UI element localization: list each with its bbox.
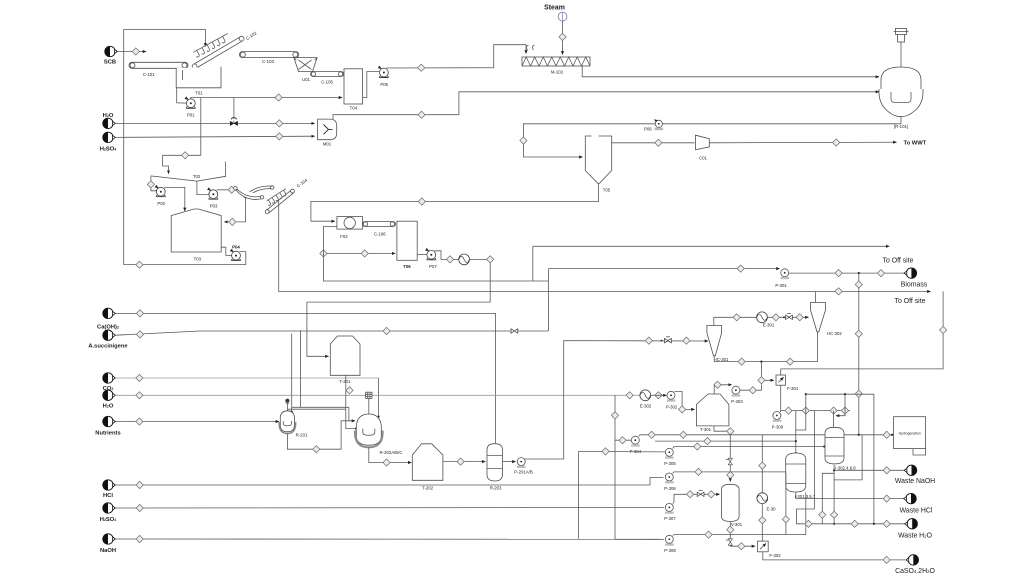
node diamond R201out xyxy=(313,446,320,453)
node diamond P01T04 xyxy=(275,94,282,101)
conveyor C-101 xyxy=(129,62,188,77)
node diamond P07b xyxy=(487,256,494,263)
svg-text:F02: F02 xyxy=(340,234,348,239)
node diamond e30b xyxy=(759,517,766,524)
node diamond H2SO4 xyxy=(276,133,283,140)
svg-text:H2SO4: H2SO4 xyxy=(100,147,117,153)
wire H2O to E-302 xyxy=(115,394,639,396)
svg-text:P03: P03 xyxy=(210,204,218,209)
wire F-301 bottoms to P-309 xyxy=(780,385,782,411)
pump P04 xyxy=(231,245,241,261)
conveyor C-106 xyxy=(363,222,396,237)
wire T02 to P03 xyxy=(197,181,209,195)
svg-text:T02: T02 xyxy=(193,174,201,179)
node diamond trunk2 xyxy=(855,390,862,397)
svg-text:M01: M01 xyxy=(323,141,332,146)
svg-text:To Off site: To Off site xyxy=(895,298,926,305)
svg-text:P07: P07 xyxy=(429,264,437,269)
svg-text:HCl: HCl xyxy=(103,493,113,499)
wire T04 right to P05 riser xyxy=(363,72,380,98)
svg-text:Hydrogenation: Hydrogenation xyxy=(899,431,921,435)
wire C-104 to T03 xyxy=(224,198,245,222)
wire P01 branch down to T02 xyxy=(163,98,201,174)
conveyor C-104 upper belt xyxy=(244,186,274,198)
svg-text:P04: P04 xyxy=(232,245,240,250)
node diamond M01out xyxy=(418,111,425,118)
wire F02 bottoms xyxy=(323,227,548,282)
svg-text:T06: T06 xyxy=(403,264,411,269)
tank T-202 xyxy=(412,444,443,491)
wire v845 short xyxy=(836,394,845,416)
node diamond cl1 xyxy=(785,407,792,414)
conveyor C-104 lower belt xyxy=(234,187,264,200)
node diamond f301in xyxy=(758,377,765,384)
feed H2O top xyxy=(103,113,116,128)
svg-text:P-305: P-305 xyxy=(664,461,676,466)
hydrocyclone HC-301 xyxy=(707,326,729,362)
filter F02 xyxy=(337,217,363,240)
wire Waste H2O line xyxy=(797,509,906,524)
wire T01 to P01 xyxy=(177,88,187,103)
pump P-306 xyxy=(664,473,676,491)
reactor R-101 xyxy=(879,28,923,129)
node diamond T05out xyxy=(655,139,662,146)
node diamond Asucc2 xyxy=(383,327,390,334)
svg-text:To Off site: To Off site xyxy=(883,257,914,264)
node diamond H2Ob xyxy=(136,392,143,399)
node diamond SCB xyxy=(132,48,139,55)
node diamond wh2o0 xyxy=(602,448,609,455)
node junction clj2 xyxy=(844,393,846,395)
node diamond P04rec xyxy=(136,261,143,268)
compressor C01 xyxy=(696,135,710,160)
svg-text:C-103: C-103 xyxy=(262,59,274,64)
node diamond t301bot xyxy=(727,428,734,435)
node diamond bot1 xyxy=(738,358,745,365)
node diamond bio2 xyxy=(877,270,884,277)
wire R-203 to P-201 xyxy=(503,461,516,463)
output Waste NaOH xyxy=(895,465,935,485)
wire I-301 bottoms to Waste HCl xyxy=(796,492,904,499)
wire riser to hydrogenation line xyxy=(834,435,862,480)
node diamond i302d xyxy=(831,511,838,518)
tank T04 xyxy=(344,69,363,111)
heatx E-301 xyxy=(757,312,775,328)
trough T02 xyxy=(151,174,226,181)
wire M-102 to R-101 xyxy=(582,66,879,77)
pump P-307 xyxy=(664,503,676,521)
node diamond hc302oh xyxy=(835,288,842,295)
node junction i301a xyxy=(795,440,797,442)
svg-text:P-308: P-308 xyxy=(664,548,676,553)
node diamond e302a xyxy=(626,392,633,399)
node diamond H2SO4b xyxy=(136,504,143,511)
svg-text:C-101: C-101 xyxy=(143,72,155,77)
node junction i302a xyxy=(833,469,835,471)
wire To Off site 1 xyxy=(533,245,889,247)
filter F-302 xyxy=(758,541,782,558)
svg-text:C-106: C-106 xyxy=(374,232,386,237)
svg-text:P-309: P-309 xyxy=(772,424,784,429)
node diamond L1b xyxy=(680,431,687,438)
wire v805 xyxy=(796,394,806,430)
node diamond R101line xyxy=(520,137,527,144)
feed NaOH xyxy=(100,534,116,554)
svg-text:I-301,3,5,7: I-301,3,5,7 xyxy=(795,494,816,499)
pump P03 xyxy=(208,189,218,209)
svg-text:T-301: T-301 xyxy=(700,427,712,432)
node diamond bot2 xyxy=(787,358,794,365)
tank T05 hopper xyxy=(585,136,611,193)
node diamond Asucc1 xyxy=(136,331,143,338)
hydrocyclone HC-302 xyxy=(811,303,843,337)
node diamond e30a xyxy=(759,462,766,469)
node diamond P07a xyxy=(446,256,453,263)
svg-text:P06: P06 xyxy=(644,127,652,132)
node junction wh2o xyxy=(873,523,875,525)
wire P03 to C-104 xyxy=(217,189,241,191)
pump P07 xyxy=(426,249,437,269)
svg-text:P02: P02 xyxy=(157,201,165,206)
wire broth header to P-301 xyxy=(548,268,779,270)
wire HC-301 overhead to HC-302 xyxy=(714,317,809,325)
output CaSO4 2H2O xyxy=(895,555,935,575)
wire v795 to I-301 xyxy=(795,411,797,454)
wire P-301 to Biomass xyxy=(789,272,905,274)
node diamond feed2 xyxy=(683,337,690,344)
node diamond L1c xyxy=(883,431,890,438)
node diamond oh2 xyxy=(772,314,779,321)
svg-text:Steam: Steam xyxy=(544,5,565,12)
wire branch left down xyxy=(822,473,834,524)
wire P05 to M-102 xyxy=(386,45,526,68)
wire junction down to F-301 xyxy=(761,362,773,381)
conveyor C-102 screw inclined xyxy=(192,30,258,69)
wire recycle left vertical P04 loop xyxy=(124,30,206,265)
wire v833 I-302 top xyxy=(833,411,835,428)
node diamond cl4 xyxy=(841,407,848,414)
svg-text:NaOH: NaOH xyxy=(100,548,116,554)
node diamond e302b xyxy=(655,392,662,399)
tank T06 xyxy=(397,221,417,269)
feed Ca(OH)2 xyxy=(97,308,119,330)
svg-text:I-302,4,6,8: I-302,4,6,8 xyxy=(835,465,856,470)
svg-text:F-301: F-301 xyxy=(787,386,799,391)
wire SCB line xyxy=(117,51,146,53)
wire HCl to P-306 xyxy=(115,478,663,486)
node diamond oh1 xyxy=(733,314,740,321)
node diamond T06in xyxy=(361,250,368,257)
node diamond oh3 xyxy=(796,314,803,321)
node junction i302b xyxy=(833,523,835,525)
crusher U01 xyxy=(294,58,317,82)
wire cluster top header xyxy=(806,393,874,395)
pump P02 xyxy=(156,186,166,206)
pump P05 xyxy=(379,67,389,87)
conveyor C-104 screw inclined xyxy=(265,177,308,213)
output Biomass xyxy=(901,268,928,289)
wire CO2 line xyxy=(115,377,378,379)
node junction r201top xyxy=(291,411,293,413)
wire R-201 to R-202 xyxy=(287,421,355,449)
node diamond H2O xyxy=(276,120,283,127)
wire P-302 to T-301 xyxy=(674,392,694,410)
svg-text:R-201: R-201 xyxy=(296,432,308,437)
wire P-308 discharge xyxy=(673,493,806,536)
svg-text:E-301: E-301 xyxy=(763,323,775,328)
pump P-201A/B xyxy=(514,458,533,475)
wire Waste NaOH line xyxy=(834,469,904,471)
feed A.succinigene xyxy=(88,330,128,349)
feeder M-102 xyxy=(522,45,590,74)
valve control valve on H2O line xyxy=(230,118,237,126)
valve bowtie v301bot xyxy=(726,539,733,545)
wire P-306 discharge xyxy=(673,472,794,473)
node diamond whcl xyxy=(883,495,890,502)
fermenter R-202A/B/C xyxy=(355,392,403,455)
svg-text:R-203: R-203 xyxy=(490,485,502,490)
column I-301,3,5,7 xyxy=(786,453,816,499)
wire Nutrients to R-201 xyxy=(115,421,279,423)
node diamond wnaoh xyxy=(883,467,890,474)
wire to offsite1 riser xyxy=(532,246,534,281)
mixer M01 xyxy=(318,119,337,146)
wire T06 to P07 xyxy=(417,253,427,255)
wire P07 discharge xyxy=(307,251,490,356)
wire A.succ drop a to R-201 xyxy=(291,334,293,413)
node diamond v301bot xyxy=(727,526,734,533)
wire T02 to P02 xyxy=(151,176,157,191)
wire HC-302 overhead xyxy=(815,291,817,302)
wire branch P305 suction header xyxy=(578,450,665,453)
node diamond WWT xyxy=(833,139,840,146)
wire long vertical x814 xyxy=(814,411,816,509)
svg-text:Waste NaOH: Waste NaOH xyxy=(895,478,935,485)
feed SCB xyxy=(104,46,118,65)
svg-text:Waste HCl: Waste HCl xyxy=(900,507,933,514)
tank T-201 xyxy=(330,336,360,384)
wire P-309 discharge cluster xyxy=(780,411,850,412)
svg-text:T-201: T-201 xyxy=(339,379,351,384)
wire H2SO4 to M01 xyxy=(115,136,314,137)
pump P-309 xyxy=(772,412,784,430)
node diamond t301in xyxy=(679,406,686,413)
wire R-101 bottoms header xyxy=(523,117,901,157)
wire trunk x874 down xyxy=(873,394,875,524)
node junction bot xyxy=(760,361,762,363)
wire E302 to P302 xyxy=(651,394,667,396)
svg-text:H2O: H2O xyxy=(103,404,114,410)
node diamond f301oh xyxy=(940,326,947,333)
svg-text:HC-302: HC-302 xyxy=(827,331,842,336)
svg-text:P-301: P-301 xyxy=(775,283,787,288)
feed Nutrients xyxy=(95,416,120,436)
steam label and symbol xyxy=(544,5,567,22)
wire F-301 overhead to offsite riser xyxy=(781,291,943,375)
node junction L1trunk xyxy=(858,434,860,436)
feed H2O bottom xyxy=(103,390,116,409)
node diamond R202out xyxy=(383,459,390,466)
valve bowtie on A.succ line xyxy=(511,329,518,333)
tank T-301 xyxy=(696,394,729,432)
valve bowtie feed xyxy=(661,337,672,343)
svg-text:To WWT: To WWT xyxy=(904,141,927,147)
svg-text:Nutrients: Nutrients xyxy=(95,431,120,437)
pump P-301 xyxy=(775,269,789,288)
wire double header lower xyxy=(288,408,346,410)
node diamond Nutrients xyxy=(136,418,143,425)
svg-text:F-302: F-302 xyxy=(769,553,781,558)
node diamond HCl xyxy=(136,481,143,488)
svg-text:E-30: E-30 xyxy=(767,506,777,511)
node diamond steam xyxy=(559,33,566,40)
svg-text:P-302: P-302 xyxy=(666,404,678,409)
node diamond p308out xyxy=(705,531,712,538)
tank T01 xyxy=(176,67,221,96)
wire A.succinigene line xyxy=(115,331,548,335)
wire A.succ riser to broth header xyxy=(547,269,549,331)
wire F-302 to CaSO4 xyxy=(763,552,905,560)
node diamond L2a xyxy=(704,438,711,445)
wire steam to M-102 xyxy=(562,21,564,55)
svg-text:U01: U01 xyxy=(302,77,310,82)
node diamond wh2o2 xyxy=(851,520,858,527)
node diamond CaOH2 xyxy=(136,310,143,317)
wire T-301 overhead to P-303 xyxy=(714,385,731,394)
wire M01 to R-101 xyxy=(333,92,879,119)
wire A.succ drop b xyxy=(300,330,302,407)
node diamond i302e xyxy=(819,511,826,518)
svg-text:[R-101]: [R-101] xyxy=(894,124,908,129)
wire trunk biomass junction down xyxy=(858,273,860,435)
feed H2SO4 bottom xyxy=(100,503,117,523)
node junction bio xyxy=(858,272,860,274)
svg-text:P-306: P-306 xyxy=(664,486,676,491)
node diamond T05bot xyxy=(418,198,425,205)
svg-text:R-202A/B/C: R-202A/B/C xyxy=(380,450,403,455)
svg-text:H2SO4: H2SO4 xyxy=(100,517,117,523)
wire T05 bottoms to F02 xyxy=(311,184,599,221)
svg-text:Biomass: Biomass xyxy=(901,282,928,289)
node diamond cl2 xyxy=(802,407,809,414)
wire P-201 to HC-301 feed xyxy=(525,341,709,459)
svg-text:SCB: SCB xyxy=(104,60,116,66)
node diamond T201out xyxy=(346,387,353,394)
node diamond trunk615 xyxy=(611,412,618,419)
node diamond v301in xyxy=(727,471,734,478)
wire P01 to T04 xyxy=(191,98,342,99)
wire P-304 suction xyxy=(615,439,631,441)
wire E-30 branch xyxy=(761,435,763,541)
wire T-301 bottoms xyxy=(714,426,730,482)
tank T03 xyxy=(171,209,221,261)
wire H2O to M01 xyxy=(115,122,314,124)
svg-text:P01: P01 xyxy=(187,113,195,118)
filter F-301 xyxy=(776,375,799,391)
wire T-201 outlet to R-202 lower inlet xyxy=(346,375,356,429)
reactor R-203 xyxy=(487,444,503,491)
conveyor C-103 xyxy=(239,52,298,65)
svg-text:CaSO4.2H2O: CaSO4.2H2O xyxy=(895,568,935,575)
node junction clj1 xyxy=(805,393,807,395)
feed HCl xyxy=(103,480,116,499)
wire P-307 discharge to V-301 xyxy=(673,494,720,503)
node diamond p307b xyxy=(708,491,715,498)
node diamond broth xyxy=(737,265,744,272)
wire I-302 bottoms down to waste header xyxy=(833,465,835,524)
pump P-304 xyxy=(630,436,642,454)
node diamond p303out xyxy=(749,387,756,394)
valve bowtie oh xyxy=(783,314,792,320)
svg-text:Waste H2O: Waste H2O xyxy=(898,532,933,539)
svg-text:T05: T05 xyxy=(603,188,611,193)
svg-text:C-105: C-105 xyxy=(321,79,333,84)
svg-text:V-301: V-301 xyxy=(731,522,743,527)
wire NaOH to P-308 xyxy=(115,538,664,540)
node diamond P03out xyxy=(228,186,235,193)
svg-text:P-303: P-303 xyxy=(731,399,743,404)
node diamond f302in xyxy=(738,543,745,550)
wire trunk615 xyxy=(615,395,661,539)
pump P06 xyxy=(644,120,663,132)
box Hydrogenation xyxy=(894,417,926,455)
output Waste H2O xyxy=(898,519,933,540)
node diamond feed1 xyxy=(645,337,652,344)
node diamond wh2o1 xyxy=(805,520,812,527)
wire V-301 bottoms to F-302 xyxy=(730,522,755,547)
node diamond L3a xyxy=(694,443,701,450)
node diamond wh2o3 xyxy=(883,520,890,527)
node junction r202low xyxy=(355,428,357,430)
node diamond L1a xyxy=(648,431,655,438)
wire vertical x786 xyxy=(785,473,787,535)
wire H2SO4 to P-307 xyxy=(115,507,664,510)
svg-text:T01: T01 xyxy=(195,91,203,96)
pump P-303 xyxy=(731,386,743,404)
node diamond x786 xyxy=(782,516,789,523)
svg-text:E-302: E-302 xyxy=(640,403,652,408)
conveyor C-105 xyxy=(311,72,344,85)
svg-text:P-201A/B: P-201A/B xyxy=(514,470,533,475)
node diamond P02in xyxy=(147,181,154,188)
fermenter R-201 xyxy=(279,399,308,438)
pump P01 xyxy=(186,98,196,118)
svg-text:T04: T04 xyxy=(350,105,358,110)
node diamond T202out xyxy=(457,458,464,465)
wire into T06 xyxy=(323,252,395,254)
node diamond trunk1 xyxy=(855,330,862,337)
svg-text:HC-301: HC-301 xyxy=(714,357,729,362)
node diamond NaOH xyxy=(136,535,143,542)
svg-text:T-202: T-202 xyxy=(422,485,434,490)
valve bowtie p307 xyxy=(697,491,704,497)
pump P-302 xyxy=(666,391,678,409)
heatx E small after P07 xyxy=(459,254,470,265)
feed H2SO4 top xyxy=(100,132,117,152)
svg-text:A.succinigene: A.succinigene xyxy=(88,343,128,349)
wire P02 to T03 xyxy=(164,187,185,211)
svg-text:P-307: P-307 xyxy=(664,516,676,521)
valve bowtie v301top xyxy=(726,458,733,465)
svg-text:M-102: M-102 xyxy=(551,69,564,74)
wire P-303 to F-301 xyxy=(739,384,761,390)
wire L2 xyxy=(655,440,796,442)
wire P04 recycle to left vertical xyxy=(124,252,246,265)
pump P-308 xyxy=(664,535,676,553)
wire drop to R-202 upper inlet xyxy=(348,407,350,421)
vessel V-301 xyxy=(721,484,742,527)
node diamond p306out xyxy=(695,468,702,475)
